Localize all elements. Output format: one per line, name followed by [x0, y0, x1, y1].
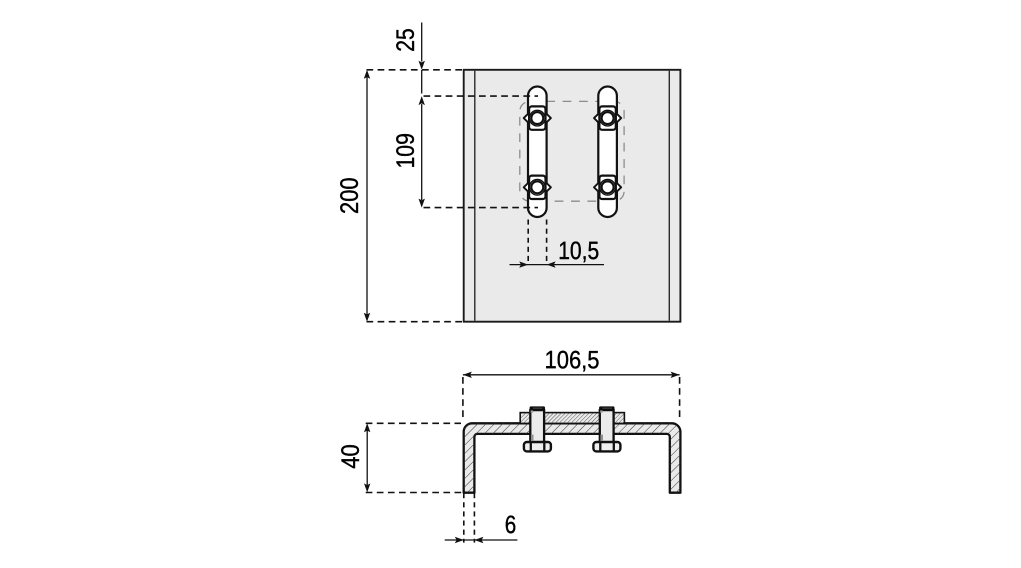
svg-text:6: 6 [505, 511, 517, 539]
dimension 10,5 [510, 220, 605, 268]
extension dashed line plate top [367, 69, 464, 71]
bolt 2 [593, 406, 620, 451]
dimension 25 [392, 23, 425, 94]
mounting plate cross-section [520, 413, 624, 424]
dimension 109 [392, 96, 425, 208]
svg-text:109: 109 [392, 133, 420, 169]
plate bend line left [474, 71, 476, 321]
bolt 1 [524, 406, 551, 451]
dimension 200 [336, 70, 370, 322]
nut top-left [524, 106, 551, 129]
svg-text:200: 200 [336, 177, 364, 214]
bracket cross-section [464, 423, 681, 492]
dimension 106,5 [463, 346, 680, 420]
dimension 40 [337, 423, 462, 492]
extension dashed line slot upper [424, 95, 539, 97]
slot 2 [598, 87, 617, 218]
extension dashed line plate bottom [367, 321, 464, 323]
svg-text:106,5: 106,5 [544, 346, 599, 374]
extension dashed line slot lower [424, 207, 539, 209]
plate top view body [464, 70, 681, 322]
nut bottom-right [594, 176, 621, 199]
svg-text:10,5: 10,5 [558, 237, 599, 265]
plate bend line right [668, 71, 670, 321]
slot 1 [528, 87, 547, 218]
svg-text:25: 25 [392, 28, 420, 52]
svg-text:40: 40 [337, 444, 365, 469]
dimension 6 [445, 493, 518, 543]
nut top-right [594, 106, 621, 129]
clamp outline dashed rounded rect [520, 101, 624, 201]
nut bottom-left [524, 176, 551, 199]
